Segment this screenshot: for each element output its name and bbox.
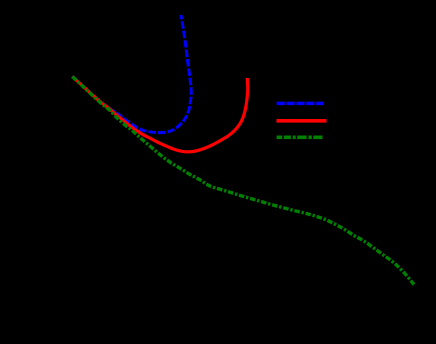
- curve: red solid (second series): [72, 76, 248, 151]
- legend sample: blue dashed line: [277, 102, 324, 106]
- curve: green dash-dot (third series): [72, 77, 414, 285]
- curve: blue dashed (first series): [72, 15, 191, 133]
- legend sample: green dash-dot line: [277, 136, 323, 140]
- legend sample: red solid line: [277, 119, 327, 123]
